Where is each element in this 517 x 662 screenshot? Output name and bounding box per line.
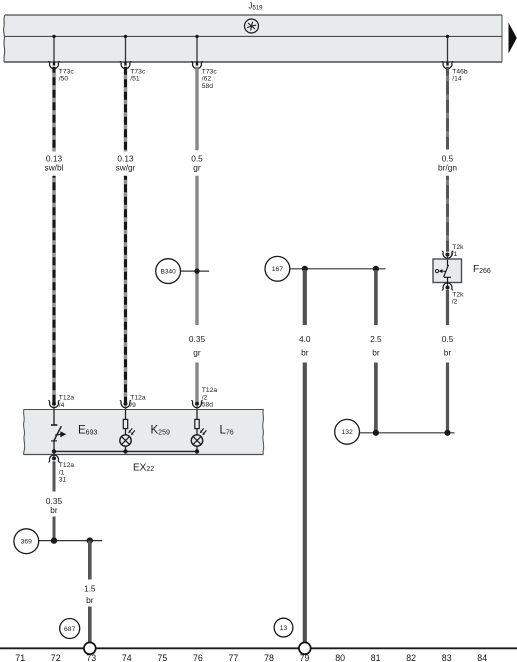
track numbers 71-84: [15, 653, 487, 662]
svg-text:T73c: T73c: [202, 68, 218, 75]
svg-text:J519: J519: [249, 2, 264, 12]
bus internal connection symbol (circled star): [245, 19, 259, 33]
wire label 4.0 br: [299, 334, 311, 357]
connector T12a/2 58d: [191, 387, 217, 409]
svg-text:1.5: 1.5: [84, 583, 96, 593]
svg-text:F266: F266: [473, 264, 491, 275]
svg-text:br: br: [372, 347, 380, 357]
svg-text:687: 687: [64, 626, 76, 633]
svg-text:31: 31: [59, 477, 67, 484]
label EX22: [133, 462, 154, 473]
junction 0.5 br / tap: [444, 430, 450, 436]
connection reference 13: [274, 618, 293, 637]
svg-text:75: 75: [158, 653, 168, 662]
indicator lamp L76: [191, 409, 206, 454]
connector T2k/2: [442, 283, 464, 306]
svg-text:T2k: T2k: [452, 244, 464, 251]
svg-text:0.35: 0.35: [189, 334, 206, 344]
svg-text:br: br: [86, 595, 94, 605]
svg-text:T12a: T12a: [130, 395, 146, 402]
svg-text:167: 167: [272, 266, 284, 273]
label E693: [78, 425, 97, 437]
label L76: [220, 425, 234, 437]
junction on 2.5 br wire: [373, 266, 379, 272]
wire label 0.35 gr: [189, 334, 206, 357]
junction on 4.0 br wire: [302, 266, 308, 272]
svg-text:T73c: T73c: [130, 68, 146, 75]
svg-text:T2k: T2k: [452, 291, 464, 298]
junction 1.5 br / tap: [87, 537, 93, 543]
svg-text:/1: /1: [59, 469, 65, 476]
wire 0.5 br below F266: [446, 290, 449, 325]
connection reference B340: [156, 259, 181, 284]
junction 2.5 br / tap: [373, 430, 379, 436]
ground terminal 79: [299, 642, 311, 654]
wire 2.5 br upper segment: [374, 270, 378, 325]
connector T12a/4: [48, 395, 74, 410]
svg-text:58d: 58d: [202, 402, 213, 409]
wire label 0.5 gr: [191, 153, 203, 172]
wire 4.0 br upper segment: [303, 270, 307, 325]
wire label 1.5 br: [84, 583, 96, 605]
svg-text:gr: gr: [193, 163, 201, 173]
wire 0.5 gr upper segment: [195, 67, 198, 150]
svg-text:gr: gr: [193, 347, 201, 357]
svg-text:132: 132: [341, 429, 353, 436]
bus stub wire at x=447.5: [446, 35, 449, 66]
wire br/gn lower segment: [446, 176, 449, 252]
control unit J519 bus bar: [4, 15, 502, 62]
connection reference 132: [335, 419, 360, 444]
svg-text:B340: B340: [161, 269, 177, 276]
wire 0.13 sw/bl lower segment: [52, 176, 55, 403]
svg-text:/2: /2: [202, 394, 208, 401]
svg-text:/1: /1: [452, 251, 458, 258]
svg-text:0.5: 0.5: [442, 334, 454, 344]
svg-text:73: 73: [86, 653, 96, 662]
svg-text:br/gn: br/gn: [438, 163, 457, 173]
wire label 0.35 br: [46, 496, 63, 515]
connection reference 369: [14, 529, 39, 554]
switch E693: [51, 409, 66, 451]
svg-text:T12a: T12a: [59, 395, 75, 402]
ground terminal 73: [84, 642, 96, 654]
svg-text:/14: /14: [452, 76, 462, 83]
svg-text:/51: /51: [130, 76, 140, 83]
svg-text:/2: /2: [452, 299, 458, 306]
connector T73c/51: [120, 62, 146, 83]
wire 0.13 sw/gr lower segment: [124, 176, 127, 403]
wire 1.5 br lower segment: [88, 607, 92, 643]
junction 0.35 br / tap: [51, 537, 57, 543]
node B340 tap line: [181, 270, 210, 272]
svg-text:13: 13: [280, 625, 288, 632]
switch F266 box: [433, 259, 462, 283]
svg-text:sw/gr: sw/gr: [116, 163, 136, 173]
in-box bus wire: [54, 450, 197, 452]
node 132 tap line: [360, 432, 455, 434]
wire label 0.5 br: [442, 334, 454, 357]
bus continuation arrow: [509, 23, 517, 54]
connector T46b/14: [442, 62, 468, 83]
switch F266 contact symbol: [435, 260, 451, 283]
bus stub wire at x=197: [195, 35, 198, 66]
svg-text:/62: /62: [202, 76, 212, 83]
svg-text:T73c: T73c: [59, 68, 75, 75]
bus stub wire at x=125.5: [124, 35, 127, 66]
wire gr middle segment: [195, 176, 198, 325]
junction on gr wire: [194, 268, 199, 273]
svg-text:84: 84: [477, 653, 487, 662]
wire 0.13 sw/gr upper segment: [124, 67, 127, 151]
component box EX22: [23, 409, 264, 455]
wire 2.5 br lower segment: [374, 363, 378, 432]
label K259: [151, 425, 170, 437]
wire gr lower segment: [195, 363, 198, 403]
svg-text:T12a: T12a: [202, 387, 218, 394]
svg-text:2.5: 2.5: [370, 334, 382, 344]
svg-text:80: 80: [335, 653, 345, 662]
ground rail: [0, 647, 517, 649]
svg-text:/9: /9: [130, 402, 136, 409]
svg-text:br: br: [301, 347, 309, 357]
wire label 0.13 sw/gr: [116, 153, 136, 172]
J519 label: [249, 2, 264, 12]
wire 0.5 br/gn upper segment: [446, 67, 449, 150]
node 167 tap line: [290, 268, 386, 270]
connector T12a/9: [120, 395, 146, 410]
bus stub wire at x=54: [52, 35, 55, 66]
svg-text:/4: /4: [59, 402, 65, 409]
wire label 0.5 br/gn: [438, 153, 457, 172]
indicator lamp K259: [120, 409, 135, 454]
svg-text:T46b: T46b: [452, 68, 468, 75]
svg-text:58d: 58d: [202, 83, 213, 90]
svg-text:76: 76: [193, 653, 203, 662]
svg-text:sw/bl: sw/bl: [45, 163, 64, 173]
svg-text:369: 369: [21, 539, 33, 546]
wire 4.0 br lower segment: [303, 363, 307, 643]
svg-text:72: 72: [51, 653, 61, 662]
svg-text:82: 82: [406, 653, 416, 662]
junction E693 bottom: [52, 449, 56, 453]
wire 0.35 br lower segment: [53, 517, 56, 540]
svg-text:br: br: [444, 347, 452, 357]
connector T2k/1: [442, 244, 464, 260]
svg-text:EX22: EX22: [133, 462, 154, 473]
svg-text:78: 78: [264, 653, 274, 662]
svg-text:79: 79: [300, 653, 310, 662]
svg-text:83: 83: [442, 653, 452, 662]
wire 1.5 br upper segment: [88, 541, 92, 580]
node 369 tap line: [39, 540, 102, 542]
wire label 0.13 sw/bl: [45, 153, 64, 172]
label F266: [473, 264, 491, 275]
connector T12a/1 31: [48, 451, 74, 483]
svg-text:4.0: 4.0: [299, 334, 311, 344]
svg-text:77: 77: [229, 653, 239, 662]
wire 0.35 br upper segment: [53, 461, 56, 491]
connector T73c/62 58d: [191, 62, 217, 90]
wire 0.5 br lower segment: [446, 363, 449, 432]
wire 0.13 sw/bl upper segment: [52, 67, 55, 151]
svg-text:81: 81: [371, 653, 381, 662]
connector T73c/50: [48, 62, 74, 83]
connection reference 687: [60, 619, 80, 639]
wire label 2.5 br: [370, 334, 382, 357]
svg-text:71: 71: [15, 653, 25, 662]
svg-text:74: 74: [122, 653, 132, 662]
svg-text:br: br: [50, 505, 58, 515]
connection reference 167: [265, 256, 290, 281]
svg-text:T12a: T12a: [59, 462, 75, 469]
svg-text:/50: /50: [59, 76, 69, 83]
